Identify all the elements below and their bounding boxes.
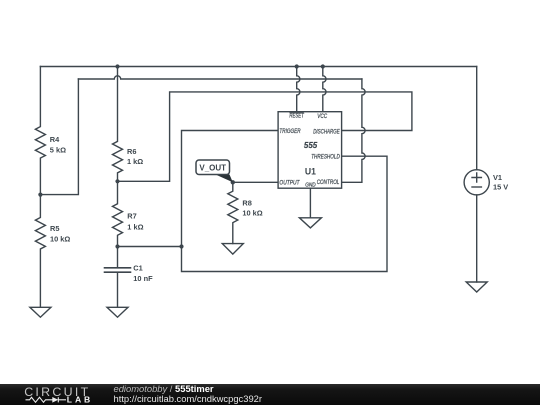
- svg-text:R7: R7: [127, 212, 136, 221]
- svg-text:C1: C1: [133, 263, 142, 272]
- svg-text:http://circuitlab.com/cndkwcpg: http://circuitlab.com/cndkwcpgc392r: [114, 393, 263, 404]
- svg-text:VCC: VCC: [317, 114, 327, 121]
- svg-text:OUTPUT: OUTPUT: [279, 180, 300, 187]
- svg-text:10 nF: 10 nF: [133, 274, 153, 283]
- svg-text:LAB: LAB: [67, 395, 93, 405]
- svg-text:THRESHOLD: THRESHOLD: [311, 154, 340, 161]
- svg-text:555: 555: [304, 140, 318, 150]
- svg-text:1 kΩ: 1 kΩ: [127, 157, 143, 166]
- svg-text:CONTROL: CONTROL: [317, 179, 340, 186]
- svg-text:TRIGGER: TRIGGER: [279, 129, 300, 136]
- svg-text:V1: V1: [493, 173, 502, 182]
- svg-text:R4: R4: [50, 135, 60, 144]
- svg-text:10 kΩ: 10 kΩ: [242, 209, 262, 218]
- svg-text:V_OUT: V_OUT: [199, 163, 226, 172]
- svg-text:U1: U1: [305, 166, 316, 176]
- svg-text:R6: R6: [127, 147, 136, 156]
- svg-text:1 kΩ: 1 kΩ: [127, 223, 143, 232]
- svg-text:GND: GND: [305, 182, 316, 188]
- svg-text:RESET: RESET: [289, 113, 304, 120]
- svg-text:10 kΩ: 10 kΩ: [50, 234, 70, 243]
- svg-text:R8: R8: [242, 198, 251, 207]
- svg-text:5 kΩ: 5 kΩ: [50, 145, 66, 154]
- svg-text:DISCHARGE: DISCHARGE: [313, 129, 340, 136]
- svg-text:15 V: 15 V: [493, 183, 508, 192]
- svg-text:R5: R5: [50, 224, 59, 233]
